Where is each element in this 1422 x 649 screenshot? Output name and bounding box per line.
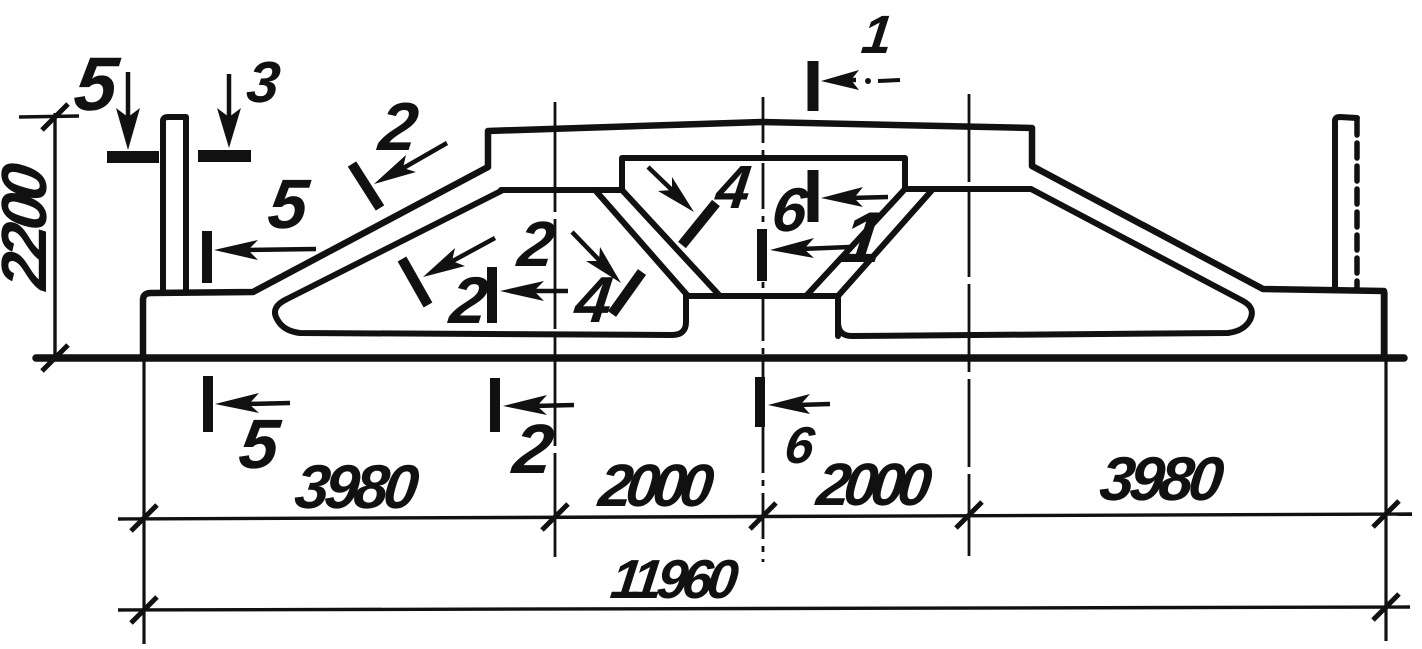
section 2 arrow (423, 248, 465, 277)
section 1 top arrow (821, 70, 859, 90)
section 4 arrow (586, 247, 621, 283)
dim tick slashes (42, 104, 68, 130)
section 3 plane bar (198, 150, 251, 162)
section 4 arrow (658, 177, 694, 212)
section 2 bottom arrow (503, 395, 547, 415)
centre axis line (762, 97, 765, 562)
middle opening left diagonal (622, 190, 720, 296)
section 5 plane bar (107, 151, 159, 163)
section 3 down arrow (217, 108, 241, 148)
section 5 tick (202, 231, 212, 283)
right web opening (838, 189, 1252, 336)
right diagonal strut edge (838, 189, 933, 296)
right top chord inner horizontal (905, 186, 1031, 192)
left web opening (275, 190, 686, 335)
svg-text:2000: 2000 (594, 451, 717, 519)
extension line right quarter axis (968, 94, 971, 556)
section 6 bottom arrow (768, 394, 810, 414)
girder bottom chord baseline (36, 354, 1404, 362)
right support post (1335, 117, 1357, 289)
girder outer profile (143, 122, 1384, 356)
middle opening right diagonal (806, 189, 905, 296)
left support post (163, 117, 186, 292)
extension line 2-2 axis (554, 102, 557, 557)
section 5 arrow (214, 240, 258, 260)
section 1 arrow (770, 238, 814, 258)
left diagonal strut edge (595, 190, 688, 296)
middle top recess (622, 158, 905, 190)
dimension line row 1 (118, 514, 1412, 519)
left opening top chord inner horizontal (501, 187, 622, 193)
section 1 top tick (808, 61, 819, 111)
svg-text:3980: 3980 (1096, 445, 1227, 514)
section 2 vertical tick (487, 267, 497, 323)
2200 top reference line (19, 116, 79, 117)
middle raised seat top edge (686, 293, 838, 299)
section 1 dash-dot tail (865, 78, 871, 84)
section mark 2 (below chord) tick (490, 378, 500, 432)
svg-text:2000: 2000 (812, 450, 935, 518)
section 5 down arrow (116, 108, 140, 150)
section 2 horizontal arrow (500, 281, 544, 301)
extension line left (axis x=144) (142, 358, 145, 644)
dimension line row 2 (11960) (118, 607, 1410, 610)
svg-text:3980: 3980 (291, 453, 422, 522)
svg-text:2200: 2200 (0, 159, 60, 293)
section 6 arrow (821, 187, 863, 207)
section mark 1 (middle) tick (757, 229, 767, 281)
section 4 tick (612, 272, 642, 314)
section 2 tick (402, 259, 428, 305)
extension line right end (1384, 292, 1387, 641)
section mark 6 (below chord) tick (755, 377, 765, 427)
section 4 tick (682, 203, 716, 245)
section 2 tick (352, 164, 380, 208)
vertical dimension 2200 line (53, 113, 56, 358)
section 5 bottom arrow (215, 393, 259, 413)
section 2 arrow (374, 155, 416, 184)
section mark 5 (below chord) tick (203, 376, 213, 432)
svg-text:11960: 11960 (608, 548, 743, 610)
right seat step (835, 296, 841, 336)
section 6 tick (808, 170, 819, 222)
